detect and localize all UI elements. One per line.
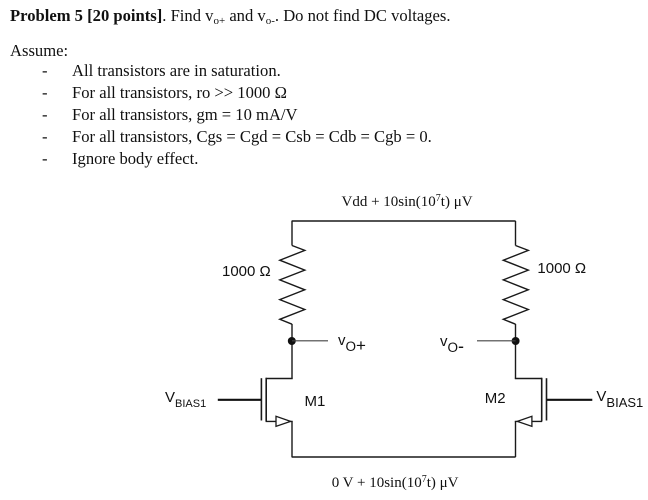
problem title text [10, 8, 451, 25]
label: 0V source supply [332, 476, 459, 491]
wire: M2 source down to bottom rail [515, 421, 517, 457]
wire: M1 source down to bottom rail [291, 421, 293, 457]
transistor M1: drain horizontal connection [266, 378, 293, 380]
wire: left resistor top stem [291, 221, 293, 246]
transistor M1: source arrow pointing right [276, 416, 291, 426]
label: Vdd supply [342, 195, 473, 210]
bullet 2 [42, 85, 48, 102]
wire: gate lead from VBIAS1 left [218, 399, 261, 401]
wire: right resistor bottom stem to drain of M2 [515, 324, 517, 379]
transistor M1: source horizontal connection [266, 420, 293, 422]
label: node vo+ [338, 331, 366, 348]
node: output node vo+ junction dot [288, 337, 296, 345]
resistor R1 1000 ohm left zigzag [280, 246, 305, 325]
label: transistor M1 [305, 394, 326, 409]
label: transistor M2 [485, 391, 506, 406]
wire: left resistor bottom stem to drain of M1 [291, 324, 293, 379]
transistor M1: gate bar [260, 378, 262, 420]
bullet 1 [42, 63, 48, 80]
transistor M2: drain horizontal connection [515, 378, 542, 380]
node: output node vo- junction dot [512, 337, 520, 345]
transistor M2: channel bar [541, 378, 543, 422]
transistor M2: source arrow pointing left [517, 416, 532, 426]
bullet 5 [42, 151, 48, 168]
wire: stub from vo- label to node [477, 340, 516, 342]
label: resistor value 1000 ohm right [537, 261, 586, 276]
label: VBIAS1 right [596, 389, 643, 404]
wire: bottom source rail [292, 456, 516, 458]
wire: top supply rail [292, 220, 516, 222]
transistor M1: channel bar [265, 378, 267, 422]
assume heading [10, 43, 68, 60]
transistor M2: source horizontal connection [515, 420, 542, 422]
label: VBIAS1 left [165, 390, 206, 405]
bullet 4 [42, 129, 48, 146]
resistor R2 1000 ohm right zigzag [503, 246, 528, 325]
wire: stub from node to vo+ label [292, 340, 328, 342]
label: resistor value 1000 ohm left [222, 264, 271, 279]
label: node vo- [440, 331, 464, 349]
transistor M2: gate bar [546, 378, 548, 420]
wire: right resistor top stem [515, 221, 517, 246]
bullet 3 [42, 107, 48, 124]
wire: gate lead from VBIAS1 right [547, 399, 592, 401]
